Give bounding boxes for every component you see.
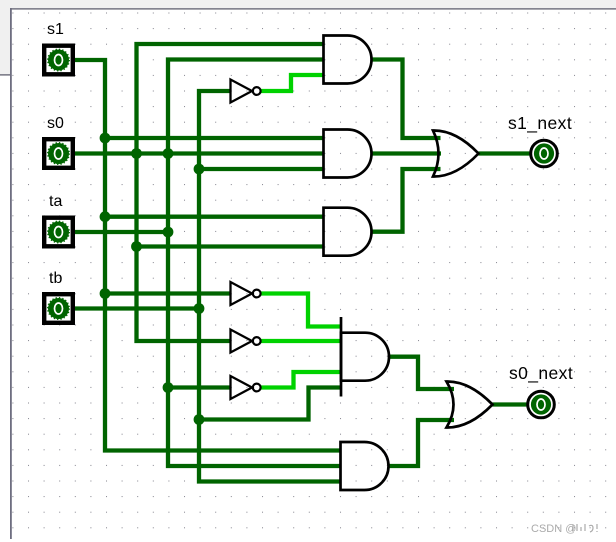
- wire ta vertical: AND1 middle input down to AND5 middle input: [168, 60, 341, 467]
- junction s0 row x168: [163, 148, 174, 159]
- wire NOT4 output (high) to AND4 input 4: [261, 372, 341, 388]
- wire tb vertical: NOT1 input down to AND5 bottom input: [199, 91, 341, 482]
- wire s1 to NOT2 input: [105, 291, 231, 295]
- wire tb pin stub: [75, 306, 199, 310]
- wire tb to AND2 bottom input: [199, 167, 324, 171]
- wire s1 to AND3 top input: [105, 215, 324, 219]
- input pin s1: [44, 46, 73, 75]
- svg-text:s1_next: s1_next: [508, 113, 572, 134]
- svg-text:CSDN @: CSDN @: [531, 523, 576, 535]
- junction s1/AND3 top: [100, 211, 111, 222]
- wire OR2 output to s0_next: [493, 402, 528, 406]
- watermark: [531, 523, 597, 535]
- output pin s1_next: [531, 140, 558, 167]
- junction s0 row x136.5: [131, 148, 142, 159]
- and-gate U5 bottom: [341, 442, 389, 490]
- junction tb/AND2 bottom: [194, 164, 205, 175]
- wire ta pin stub: [75, 230, 168, 234]
- wire tb to AND4 bottom input: [199, 388, 341, 420]
- not-gate G3 (s0): [231, 330, 261, 353]
- wire OR1 output to s1_next: [479, 151, 530, 155]
- not-gate G2 (s1): [231, 282, 261, 305]
- window chrome top band: [0, 0, 616, 8]
- svg-text:s1: s1: [47, 21, 64, 38]
- output pin s0_next: [528, 391, 555, 418]
- or-gate U6 (s1_next): [433, 130, 479, 176]
- junction tb stub: [194, 303, 205, 314]
- window chrome left band: [0, 8, 10, 75]
- wire NOT2 output (high) to AND4 input 1: [261, 294, 341, 327]
- and-gate U4 input extension line: [340, 317, 343, 397]
- wire s1 net: pin to AND5 top input via vertical x=105: [75, 60, 341, 451]
- or-gate U7 (s0_next): [447, 381, 493, 427]
- wire ta to NOT4 input: [168, 385, 231, 389]
- and-gate U2 middle: [324, 130, 372, 178]
- left splitter tick: [0, 74, 10, 76]
- wire AND2 output to OR1 middle input: [372, 151, 442, 155]
- top border line: [10, 8, 616, 10]
- wire s1 to AND2 top input: [105, 136, 324, 140]
- svg-text:ta: ta: [49, 193, 62, 210]
- junction s1/NOT2: [100, 288, 111, 299]
- wire s0 row to AND2 middle input: [75, 151, 324, 155]
- and-gate U1 top: [324, 36, 372, 84]
- wire AND5 output to OR2 bottom input: [389, 420, 455, 466]
- wire s0 vertical: AND1 top input down to NOT3 input: [137, 44, 324, 341]
- and-gate U4 (5 input) body: [341, 333, 389, 381]
- svg-text:s0: s0: [47, 115, 64, 132]
- wire AND1 output to OR1 top input: [372, 60, 441, 139]
- not-gate G4 (ta): [231, 376, 261, 399]
- wire AND3 output to OR1 bottom input: [372, 169, 441, 232]
- and-gate U3: [324, 208, 372, 256]
- junction s1/AND2 top: [100, 133, 111, 144]
- svg-text:tb: tb: [49, 270, 62, 287]
- junction s0/AND3 bottom: [131, 241, 142, 252]
- junction ta/NOT4: [163, 382, 174, 393]
- input pin tb: [44, 294, 73, 323]
- input pin s0: [44, 139, 73, 168]
- junction ta stub: [163, 227, 174, 238]
- svg-text:s0_next: s0_next: [509, 363, 573, 384]
- wire s0 to AND3 bottom input: [137, 244, 324, 248]
- wire NOT3 output (high) to AND4 input 2: [261, 339, 341, 343]
- not-gate G1 (tb): [231, 80, 261, 103]
- wire AND4 output to OR2 top input: [389, 357, 454, 389]
- wire NOT1 output (high) to AND1 bottom input: [261, 75, 324, 91]
- input pin ta: [44, 218, 73, 247]
- left border line: [10, 8, 12, 539]
- junction tb/AND4 bottom: [194, 414, 205, 425]
